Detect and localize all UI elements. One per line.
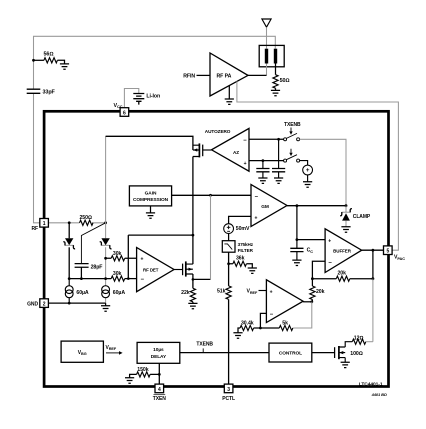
wire: buffer out down — [372, 250, 374, 279]
svg-text:RF DET: RF DET — [143, 268, 159, 273]
pin 5 PAC output — [384, 246, 393, 255]
wire: vref buffer output node — [303, 301, 312, 303]
svg-text:+: + — [328, 239, 331, 245]
offset voltage source — [303, 165, 313, 182]
svg-text:20k: 20k — [316, 289, 325, 295]
svg-text:−: − — [328, 260, 332, 266]
svg-text:LTC4401-1: LTC4401-1 — [359, 382, 383, 388]
current source 60uA right — [102, 286, 126, 298]
ground (offset source) — [303, 182, 312, 187]
wire: coupled port loop to RF pin — [34, 36, 276, 223]
svg-text:30k: 30k — [113, 271, 122, 277]
wire: diagonal to 28pF — [81, 223, 105, 264]
svg-text:−: − — [141, 277, 145, 283]
filter block 375kHz — [222, 241, 253, 253]
resistor 36k — [229, 256, 253, 268]
ground (30.4k) — [233, 333, 242, 338]
svg-text:+: + — [270, 290, 273, 296]
pin 3 PCTL — [224, 384, 233, 393]
wire: pulldown to output node (gray) — [372, 279, 374, 342]
wire: S1 to clamp node (gray) — [300, 139, 346, 205]
VREF input label — [247, 289, 267, 295]
wire: gain compression to GM inverting input — [172, 194, 251, 196]
capacitor CC — [290, 240, 313, 261]
wire: GM+ to 50mV source — [229, 216, 251, 223]
directional coupler — [259, 45, 284, 66]
ground (RF PA) — [228, 85, 230, 99]
switch S1 (sample) — [284, 133, 300, 140]
op-amp RF DET — [137, 248, 174, 292]
wire: S2 to offset source — [300, 161, 308, 166]
GAIN COMPRESSION block — [129, 186, 171, 213]
resistor 20k to vref buffer — [310, 279, 325, 302]
resistor 12ohm — [352, 335, 373, 344]
ground (M3) — [341, 362, 350, 367]
transistor M2 (detector follower) — [174, 261, 193, 276]
svg-text:GAIN: GAIN — [145, 191, 157, 197]
ground (clamp) — [341, 227, 350, 232]
wire: GM output row to clamp — [287, 205, 346, 207]
wire: correction horizontal — [128, 234, 193, 236]
block VBG — [61, 341, 103, 362]
wire: GND rail — [48, 302, 105, 304]
wire: left diode branch — [68, 223, 70, 239]
ground (22k) — [188, 303, 197, 308]
wire: M1 source down — [192, 157, 194, 236]
clamp diode — [340, 206, 371, 227]
ground (36k) — [248, 268, 257, 273]
block 10us DELAY — [137, 342, 180, 363]
svg-text:+: + — [306, 167, 310, 174]
svg-text:60µA: 60µA — [113, 290, 126, 296]
pin 2 GND — [40, 299, 49, 308]
svg-text:COMPRESSION: COMPRESSION — [133, 197, 169, 203]
TXENB control arrow S2 — [289, 149, 292, 156]
svg-text:PCTL: PCTL — [222, 396, 235, 402]
svg-text:VCC: VCC — [114, 103, 123, 109]
svg-text:5: 5 — [386, 249, 389, 255]
schottky diode D1 — [63, 238, 75, 249]
wire: TXENB row — [180, 352, 269, 354]
svg-text:+: + — [244, 161, 247, 167]
wire: AZ noninverting input row — [249, 160, 284, 162]
ground (56 ohm) — [60, 64, 69, 69]
antenna — [262, 19, 271, 27]
wire: M2 drain up — [192, 235, 194, 264]
wire: delay to TXEN pin — [158, 363, 160, 384]
svg-text:CONTROL: CONTROL — [279, 351, 302, 357]
VREF output arrow — [106, 345, 123, 355]
op-amp AZ — [205, 128, 249, 171]
svg-text:30k: 30k — [113, 251, 122, 257]
svg-text:DELAY: DELAY — [151, 354, 167, 360]
resistor 20k feedback — [312, 270, 373, 281]
svg-text:100Ω: 100Ω — [350, 351, 362, 357]
wire: GM out down to buffer+ — [297, 206, 325, 240]
svg-text:CLAMP: CLAMP — [353, 214, 371, 220]
current source 60uA left — [65, 279, 89, 304]
op-amp VREF buffer — [266, 280, 303, 323]
resistor 5k — [260, 320, 292, 330]
svg-text:RF PA: RF PA — [217, 73, 232, 79]
svg-text:56Ω: 56Ω — [44, 51, 54, 57]
resistor 22k — [181, 288, 195, 303]
pin 1 RF — [40, 219, 49, 228]
svg-text:FILTER: FILTER — [238, 248, 254, 253]
svg-text:375kHz: 375kHz — [238, 242, 254, 247]
wire: coupler main line to PA output — [266, 64, 268, 76]
svg-text:60µA: 60µA — [76, 290, 89, 296]
svg-text:36k: 36k — [236, 256, 245, 262]
resistor 56ohm — [34, 51, 65, 64]
svg-text:10µs: 10µs — [153, 347, 164, 353]
svg-text:TXENB: TXENB — [196, 342, 213, 348]
svg-text:GM: GM — [261, 204, 269, 210]
junction pin1 branch — [68, 221, 71, 224]
switch S2 (offset) — [284, 155, 300, 162]
ground (50 ohm) — [271, 90, 280, 95]
node A (RF pin net / 56 ohm tap) — [32, 59, 35, 62]
wire: output down to gain divider (gray) — [293, 302, 312, 328]
node: D2 cathode / 30k tap — [104, 257, 107, 260]
resistor 30k upper — [106, 251, 137, 261]
svg-text:4401 BD: 4401 BD — [371, 392, 387, 397]
wire: antenna to coupler — [266, 27, 268, 49]
transistor M1 (autozero) — [193, 143, 212, 157]
svg-text:150k: 150k — [137, 367, 148, 373]
op-amp RF PA — [183, 53, 266, 96]
op-amp BUFFER — [325, 229, 362, 273]
wire: 51k to PCTL pin — [228, 299, 230, 384]
svg-text:RF: RF — [31, 226, 38, 232]
svg-text:1: 1 — [43, 221, 46, 227]
wire: detector net vertical (gray) — [105, 136, 107, 303]
pin 6 VCC — [120, 108, 129, 117]
svg-text:TXENB: TXENB — [284, 122, 301, 128]
pin 4 TXEN — [155, 384, 164, 393]
wire: M2 source node — [193, 274, 211, 288]
block CONTROL — [269, 343, 312, 362]
wire: detector node to autozero transistor — [106, 136, 193, 150]
svg-text:AUTOZERO: AUTOZERO — [205, 129, 231, 134]
node B (detector RF node) — [104, 221, 107, 224]
wire: filter down to divider — [228, 252, 230, 286]
svg-text:33pF: 33pF — [43, 89, 56, 95]
wire: AZ inverting input row — [249, 138, 284, 140]
wire: detector bottom rail — [69, 278, 111, 280]
op-amp GM — [251, 185, 287, 227]
svg-text:4: 4 — [158, 387, 161, 393]
svg-text:28pF: 28pF — [91, 264, 103, 270]
schottky diode D2 — [100, 238, 112, 249]
resistor 30k lower — [111, 271, 136, 281]
wire: buffer- feedback — [312, 261, 325, 278]
resistor 50ohm termination — [273, 64, 290, 91]
svg-text:AZ: AZ — [233, 150, 239, 155]
svg-text:22k: 22k — [181, 290, 190, 296]
resistor 51k — [217, 286, 231, 300]
resistor 250ohm — [80, 215, 94, 225]
svg-text:250Ω: 250Ω — [80, 215, 92, 221]
svg-text:−: − — [255, 194, 259, 200]
svg-text:BUFFER: BUFFER — [333, 249, 352, 254]
svg-text:+: + — [255, 215, 258, 221]
svg-text:GND: GND — [27, 302, 38, 308]
wire: buffer output to pin 5 — [362, 249, 384, 251]
capacitor C1 (AZ+ hold) — [256, 161, 269, 178]
battery Li-Ion — [124, 89, 160, 108]
ground (150k) — [125, 378, 134, 383]
svg-text:Li-Ion: Li-Ion — [146, 94, 160, 100]
resistor 30.4k — [238, 320, 260, 332]
wire: PA gain control from pin 5 — [237, 81, 399, 250]
svg-text:TXEN: TXEN — [153, 396, 166, 402]
resistor 150k — [130, 367, 160, 378]
svg-text:50Ω: 50Ω — [280, 78, 290, 84]
ground (gain compression) — [146, 213, 155, 218]
svg-text:3: 3 — [227, 387, 230, 393]
wire: vref- input — [260, 313, 266, 328]
svg-text:50mV: 50mV — [236, 226, 250, 232]
TXENB control arrow S1 — [284, 122, 301, 135]
svg-text:RFIN: RFIN — [183, 73, 195, 79]
svg-text:30.4k: 30.4k — [241, 320, 254, 326]
svg-text:+: + — [141, 256, 144, 262]
voltage source 50mV — [224, 224, 250, 241]
svg-text:5k: 5k — [282, 320, 288, 326]
svg-text:−: − — [243, 138, 247, 144]
node TXENB — [196, 342, 213, 353]
svg-text:20k: 20k — [338, 270, 347, 276]
wire: GM- to detector output (gray) — [210, 195, 212, 279]
wire: autozero correction vertical — [127, 235, 129, 279]
svg-text:12Ω: 12Ω — [354, 335, 364, 341]
svg-text:−: − — [270, 312, 274, 318]
svg-text:2: 2 — [43, 302, 46, 308]
svg-text:51k: 51k — [217, 289, 226, 295]
capacitor 33pF — [27, 89, 56, 95]
capacitor C2 (AZ- hold) — [272, 139, 285, 178]
wire: control to M3 gate — [312, 352, 335, 354]
transistor M3 (output pulldown) — [335, 342, 353, 363]
capacitor 28pF — [75, 264, 103, 279]
svg-text:6: 6 — [123, 110, 126, 116]
ground (GND pin net) — [105, 303, 107, 306]
